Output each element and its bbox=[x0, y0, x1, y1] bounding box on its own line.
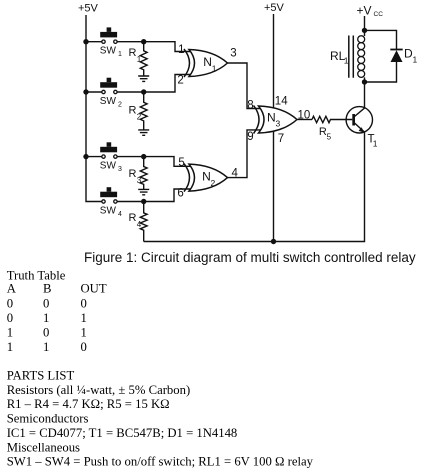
svg-text:3: 3 bbox=[118, 166, 122, 173]
svg-text:R: R bbox=[129, 168, 137, 180]
svg-text:SW1 – SW4 = Push to on/off swi: SW1 – SW4 = Push to on/off switch; RL1 =… bbox=[7, 455, 314, 469]
svg-text:N: N bbox=[267, 111, 276, 125]
svg-text:1: 1 bbox=[81, 311, 87, 325]
svg-text:4: 4 bbox=[231, 168, 238, 180]
svg-text:7: 7 bbox=[278, 133, 284, 145]
svg-text:14: 14 bbox=[275, 95, 288, 107]
svg-text:R: R bbox=[129, 47, 137, 59]
svg-text:2: 2 bbox=[137, 113, 142, 122]
svg-text:3: 3 bbox=[137, 176, 142, 185]
svg-text:0: 0 bbox=[7, 311, 13, 325]
svg-text:3: 3 bbox=[276, 119, 281, 129]
svg-text:0: 0 bbox=[81, 340, 87, 354]
svg-text:SW: SW bbox=[100, 206, 117, 217]
svg-text:Resistors (all ¼-watt, ± 5% Ca: Resistors (all ¼-watt, ± 5% Carbon) bbox=[7, 383, 191, 397]
svg-text:Miscellaneous: Miscellaneous bbox=[7, 440, 80, 454]
svg-text:R: R bbox=[129, 105, 137, 117]
svg-text:1: 1 bbox=[178, 44, 184, 56]
svg-text:4: 4 bbox=[137, 220, 142, 229]
svg-text:2: 2 bbox=[118, 102, 122, 109]
svg-text:1: 1 bbox=[118, 51, 122, 58]
svg-text:1: 1 bbox=[212, 64, 217, 74]
svg-text:4: 4 bbox=[118, 211, 122, 218]
svg-text:1: 1 bbox=[7, 340, 13, 354]
svg-text:B: B bbox=[43, 281, 51, 295]
svg-text:+5V: +5V bbox=[78, 3, 99, 15]
svg-text:1: 1 bbox=[137, 55, 142, 64]
svg-text:1: 1 bbox=[344, 56, 349, 66]
svg-text:2: 2 bbox=[211, 178, 216, 188]
svg-text:2: 2 bbox=[177, 75, 183, 87]
svg-text:0: 0 bbox=[7, 296, 13, 310]
svg-text:9: 9 bbox=[247, 131, 253, 143]
svg-text:5: 5 bbox=[178, 157, 184, 169]
svg-text:N: N bbox=[203, 55, 212, 69]
svg-text:SW: SW bbox=[100, 46, 117, 57]
svg-text:R: R bbox=[129, 212, 137, 224]
svg-text:1: 1 bbox=[413, 55, 418, 65]
svg-text:A: A bbox=[7, 281, 17, 295]
svg-text:SW: SW bbox=[100, 96, 117, 107]
svg-text:+V: +V bbox=[357, 3, 372, 17]
svg-text:CC: CC bbox=[374, 11, 384, 18]
svg-text:0: 0 bbox=[81, 296, 87, 310]
svg-text:1: 1 bbox=[7, 325, 13, 339]
svg-text:10: 10 bbox=[298, 109, 311, 121]
svg-text:0: 0 bbox=[43, 325, 49, 339]
svg-text:Truth Table: Truth Table bbox=[7, 268, 66, 282]
svg-text:R1 – R4 = 4.7 KΩ; R5 = 15 KΩ: R1 – R4 = 4.7 KΩ; R5 = 15 KΩ bbox=[7, 397, 170, 411]
svg-text:3: 3 bbox=[230, 48, 236, 60]
svg-text:6: 6 bbox=[177, 188, 183, 200]
svg-text:1: 1 bbox=[81, 325, 87, 339]
svg-text:1: 1 bbox=[43, 311, 49, 325]
svg-text:8: 8 bbox=[247, 99, 253, 111]
svg-text:1: 1 bbox=[373, 139, 378, 149]
svg-text:+5V: +5V bbox=[264, 2, 285, 14]
svg-text:Semiconductors: Semiconductors bbox=[7, 412, 89, 426]
svg-text:5: 5 bbox=[327, 133, 332, 142]
svg-text:IC1 = CD4077; T1 = BC547B; D1: IC1 = CD4077; T1 = BC547B; D1 = 1N4148 bbox=[7, 426, 238, 440]
svg-text:N: N bbox=[202, 170, 211, 184]
svg-text:1: 1 bbox=[43, 340, 49, 354]
svg-text:PARTS LIST: PARTS LIST bbox=[7, 369, 75, 383]
svg-text:0: 0 bbox=[43, 296, 49, 310]
svg-text:OUT: OUT bbox=[81, 281, 107, 295]
svg-text:SW: SW bbox=[100, 161, 117, 172]
svg-text:Figure 1: Circuit diagram of m: Figure 1: Circuit diagram of multi switc… bbox=[84, 250, 416, 265]
